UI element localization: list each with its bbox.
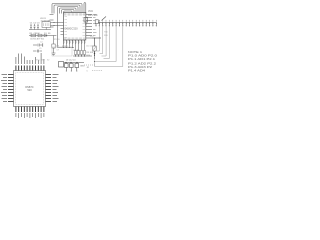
svg-text:U3 X1: U3 X1	[40, 18, 47, 20]
QFP U2 body	[14, 71, 46, 107]
wire rail from U1 bottom pins (resistor network R4)	[58, 44, 74, 48]
junction dots on crystal wires	[54, 22, 55, 23]
svg-text:C10 C11: C10 C11	[86, 46, 93, 48]
svg-text:DS80C320: DS80C320	[65, 27, 79, 31]
svg-text:GND: GND	[80, 66, 85, 68]
wire rail under R5-R8	[73, 55, 92, 57]
IC U1 body	[64, 13, 86, 41]
svg-text:C7: C7	[57, 50, 59, 52]
capacitors C4 C5 to ground	[33, 43, 43, 52]
group outline box	[52, 47, 72, 56]
dashed wire to J2	[84, 64, 95, 66]
svg-text:X2: X2	[47, 60, 49, 62]
junction dots on R4 rail	[63, 47, 73, 48]
QFP top pins	[16, 66, 44, 71]
QFP bottom pin labels	[16, 113, 44, 118]
QFP right pins	[46, 75, 52, 102]
svg-text:C6 R2 4K7 W1: C6 R2 4K7 W1	[30, 39, 45, 41]
resistors R5 R6 R7 R8 below U1	[76, 44, 85, 51]
IC U1 left pins	[61, 29, 64, 35]
svg-text:J3 C12 J4: J3 C12 J4	[66, 60, 76, 62]
svg-text:C4: C4	[40, 42, 42, 44]
IC U1 right pin outer labels	[93, 15, 97, 36]
wire Y1 box to GND rail	[45, 27, 47, 29]
svg-text:VCC GND: VCC GND	[36, 60, 45, 62]
QFP right pin labels	[53, 75, 59, 102]
svg-text:RP1 10K: RP1 10K	[88, 14, 98, 17]
svg-text:TXD: TXD	[104, 32, 108, 34]
junction dots on node A wire	[94, 55, 95, 62]
capacitor C9 on VCC branch wire	[84, 18, 88, 23]
svg-text:VCC: VCC	[88, 10, 93, 13]
junction dots under R5-R8	[75, 55, 85, 56]
svg-text:R5-R8: R5-R8	[74, 50, 81, 52]
QFP top pin labels (rotated text strokes)	[16, 53, 44, 64]
pin number labels beside U1 bottom pins	[65, 41, 86, 43]
svg-text:C5: C5	[39, 48, 41, 50]
wires from RP1 pins down to node A	[95, 26, 123, 67]
solder pads under RP1 pins	[95, 25, 156, 26]
svg-text:P1.4 AD4: P1.4 AD4	[128, 69, 146, 72]
svg-text:RXD: RXD	[104, 35, 109, 37]
resistor R3 with capacitor C7 and ground	[52, 36, 55, 54]
QFP U2 inner pad ring	[16, 73, 44, 105]
IC U1 inner pin labels	[65, 15, 86, 38]
wire bus from U1 top pins (address/data lines)	[52, 3, 86, 48]
svg-text:520: 520	[27, 88, 32, 92]
IC U1 right pins	[86, 15, 92, 39]
pin numbers above RP1 row	[99, 20, 156, 22]
IC U1 bottom inner pin numbers	[64, 37, 84, 39]
QFP bottom pins	[16, 107, 44, 113]
notes text block	[128, 51, 158, 72]
IC U1 bottom pins	[64, 40, 85, 44]
wire GND rail under C1-C3	[29, 29, 51, 31]
QFP left pin labels	[1, 75, 7, 102]
resistor pack RP1 pin row	[96, 22, 157, 24]
svg-text:P3 T0: P3 T0	[54, 39, 60, 41]
svg-text:R9 10K: R9 10K	[87, 52, 94, 54]
wire Y1 to U1 pins XTAL1/XTAL2	[51, 23, 64, 26]
svg-text:P1.1 AD1 P2.1: P1.1 AD1 P2.1	[128, 58, 156, 61]
QFP left pins	[8, 75, 14, 102]
resistor R9 on RST wire with junctions	[92, 38, 101, 57]
capacitors C1 C2 C3	[30, 24, 39, 30]
IC U1 left outside labels	[50, 15, 54, 28]
IC U1 top inner pin numbers	[64, 13, 84, 15]
